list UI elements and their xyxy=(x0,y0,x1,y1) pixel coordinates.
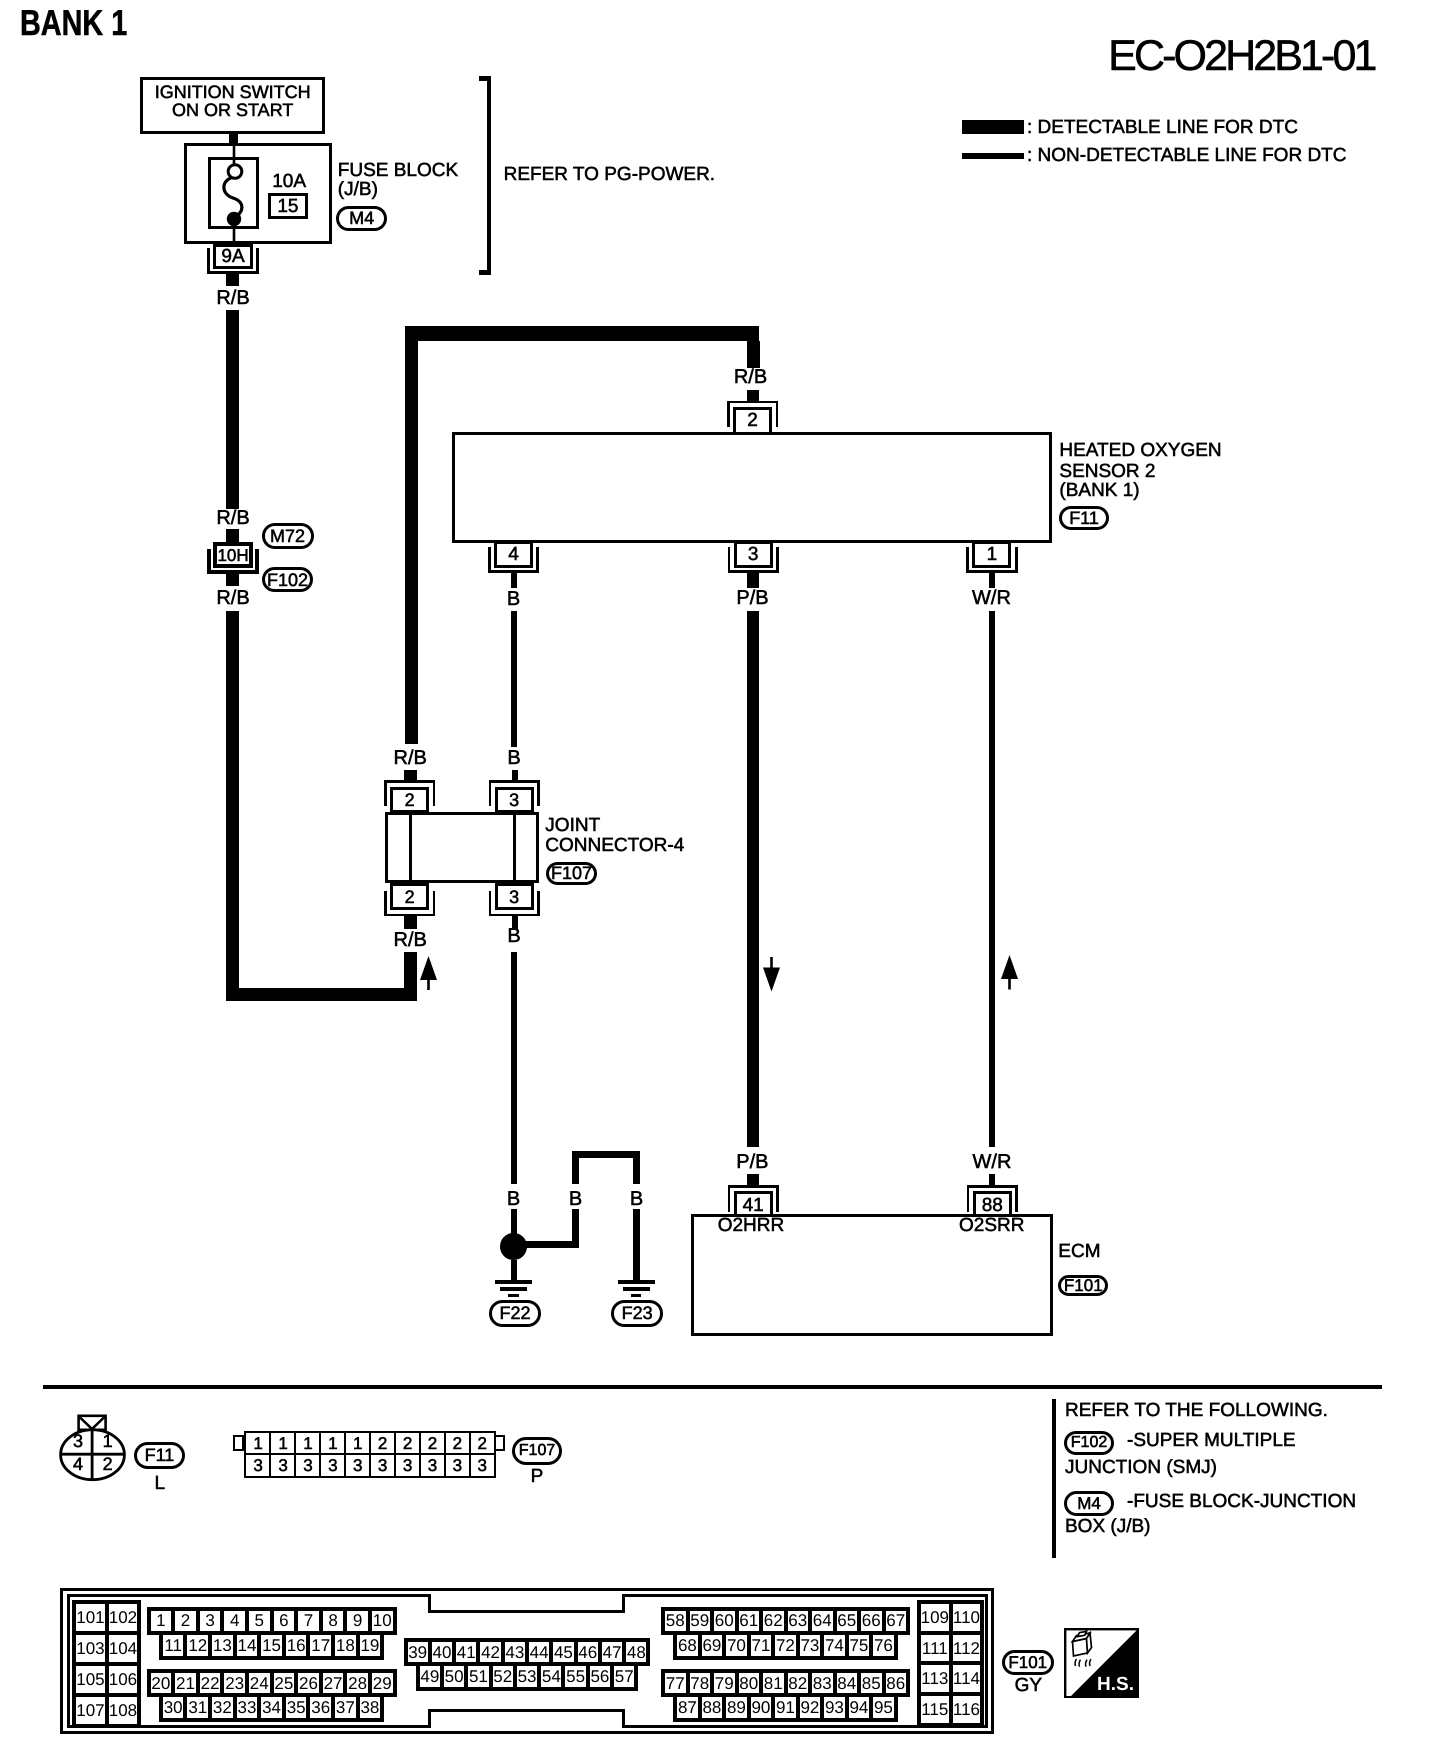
svg-text:H.S.: H.S. xyxy=(1097,1674,1134,1695)
